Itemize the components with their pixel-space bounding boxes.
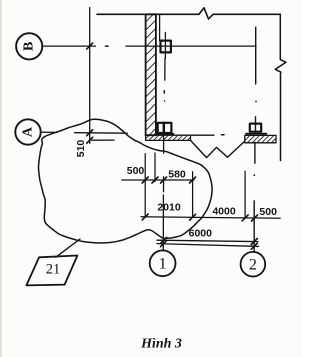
- svg-text:500: 500: [127, 165, 145, 177]
- svg-text:2: 2: [249, 257, 257, 274]
- svg-text:6000: 6000: [189, 227, 213, 239]
- svg-text:Hình 3: Hình 3: [140, 336, 182, 351]
- svg-text:510: 510: [75, 140, 87, 158]
- svg-text:21: 21: [46, 262, 61, 278]
- svg-text:500: 500: [259, 206, 277, 218]
- svg-text:580: 580: [168, 168, 186, 180]
- svg-text:1: 1: [159, 256, 167, 273]
- svg-text:4000: 4000: [212, 205, 236, 217]
- svg-text:A: A: [21, 126, 36, 137]
- svg-text:2010: 2010: [157, 201, 181, 213]
- svg-text:B: B: [22, 42, 37, 51]
